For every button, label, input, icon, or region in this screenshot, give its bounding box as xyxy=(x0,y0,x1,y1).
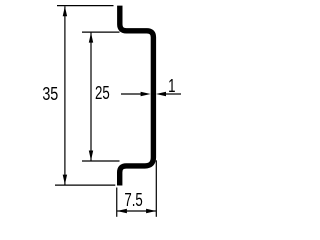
svg-text:35: 35 xyxy=(42,84,58,104)
svg-text:1: 1 xyxy=(168,76,175,97)
svg-text:25: 25 xyxy=(95,83,110,104)
svg-text:7.5: 7.5 xyxy=(124,190,142,211)
